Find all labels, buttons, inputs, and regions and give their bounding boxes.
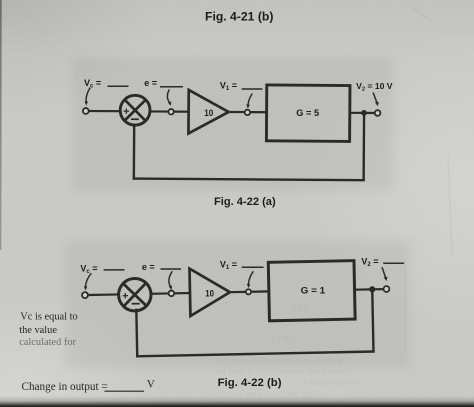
- svg-text:l ± b u: l ± b u: [272, 333, 296, 343]
- node Vc input (diagram A): [83, 108, 89, 114]
- svg-text:Vc =: Vc =: [84, 78, 101, 90]
- wire block A to output: [350, 112, 375, 114]
- node V1 (diagram B): [246, 289, 251, 294]
- wire node V1 to block B: [252, 290, 270, 293]
- feedback wire B: bottom run: [136, 351, 375, 356]
- blank line after e= (B): [161, 268, 182, 270]
- svg-text:V: V: [147, 379, 155, 391]
- arrow to node V2 (A): [373, 93, 377, 103]
- wire amplifier A to node V1: [229, 111, 245, 113]
- blank line after Vc= (A): [108, 85, 129, 87]
- scanned panel behind diagram B: [66, 241, 410, 368]
- feedback wire A: up into summing junction: [133, 125, 136, 180]
- svg-text:10: 10: [205, 288, 214, 299]
- svg-text:Vc =: Vc =: [80, 263, 97, 275]
- blank line after Vc= (B): [104, 269, 125, 271]
- arrow to node Vc (A): [86, 88, 90, 102]
- blank line after V1= (A): [242, 88, 263, 90]
- wire node V1 to block A: [251, 111, 267, 113]
- junction dot B: [369, 286, 375, 292]
- svg-text:nov have right variable me an: nov have right variable me anoth w: [216, 355, 344, 365]
- blank line after V1= (B): [242, 266, 264, 268]
- node e (diagram A): [168, 109, 173, 114]
- arrow to node V1 (A): [248, 94, 252, 106]
- block G=1 rectangle: [268, 261, 355, 321]
- bottom photo edge: [0, 396, 474, 407]
- wire input to summing junction B: [89, 293, 119, 296]
- arrow to node V2 (B): [382, 267, 386, 278]
- arrowhead V2 (A): [375, 102, 379, 106]
- svg-text:Fig. 4-22 (a): Fig. 4-22 (a): [214, 196, 276, 208]
- svg-text:Fig. 4-21 (b): Fig. 4-21 (b): [205, 9, 273, 23]
- node e (diagram B): [169, 291, 175, 297]
- arrowhead V1 (B): [247, 284, 251, 288]
- svg-text:G = 5: G = 5: [296, 108, 319, 119]
- wire node e to amplifier A: [174, 110, 189, 112]
- wire node e to amplifier B: [175, 292, 191, 295]
- svg-text:e =: e =: [142, 262, 155, 272]
- feedback wire B: down from junction: [372, 289, 373, 351]
- left photo edge: [0, 0, 2, 250]
- feedback wire A: down from junction: [362, 113, 365, 180]
- summing junction SJ-B minus sign: [132, 303, 140, 305]
- feedback wire A: bottom run: [133, 179, 365, 181]
- blank line after Change in output: [105, 390, 145, 392]
- svg-text:V2 =: V2 =: [361, 257, 378, 269]
- svg-text:d j b: d j b: [292, 302, 309, 312]
- svg-text:e =: e =: [144, 78, 157, 88]
- arrowhead e (B): [169, 286, 173, 291]
- summing junction SJ-A cross: [125, 100, 146, 121]
- svg-text:ow ere s word dini gnol: ow ere s word dini gnol: [232, 389, 318, 399]
- svg-text:V1 =: V1 =: [220, 260, 237, 272]
- svg-text:asl hodc si wvl homrrow mst tm: asl hodc si wvl homrrow mst tmeearg: [216, 366, 352, 376]
- svg-text:Vc is equal to: Vc is equal to: [20, 312, 77, 323]
- arrowhead V2 (B): [384, 277, 388, 281]
- node V2 output (diagram B): [383, 286, 389, 292]
- summing junction SJ-B plus sign: [123, 293, 129, 299]
- wire input to summing junction A: [89, 110, 119, 112]
- svg-text:Change in output =: Change in output =: [22, 381, 108, 393]
- wire amplifier B to node V1: [230, 291, 246, 294]
- wire block B to output: [355, 288, 384, 291]
- blank line after e= (A): [160, 86, 183, 88]
- blank line after V2= (B): [383, 262, 404, 264]
- summing junction SJ-A circle: [120, 95, 150, 125]
- junction dot A: [361, 110, 367, 116]
- svg-text:Fig. 4-22 (b): Fig. 4-22 (b): [218, 377, 282, 389]
- svg-text:10: 10: [204, 108, 213, 119]
- node V1 (diagram A): [245, 110, 250, 115]
- summing junction SJ-A minus sign: [131, 118, 139, 120]
- wire summing junction B to node e: [150, 292, 168, 295]
- arrow to node e (A): [167, 90, 169, 103]
- node Vc input (diagram B): [82, 292, 88, 298]
- svg-text:av knius want m: av knius want m: [300, 377, 359, 387]
- svg-text:calculated for: calculated for: [19, 337, 76, 348]
- summing junction SJ-B cross: [123, 283, 146, 306]
- svg-text:G = 1: G = 1: [301, 286, 326, 297]
- feedback wire B: up into summing junction: [135, 309, 138, 358]
- node V2 output (diagram A): [375, 110, 381, 116]
- svg-text:the value: the value: [19, 325, 57, 336]
- svg-text:V2 = 10 V: V2 = 10 V: [356, 81, 393, 92]
- block G=5 rectangle: [266, 85, 350, 141]
- summing junction SJ-A plus sign: [124, 108, 129, 113]
- summing junction SJ-B circle: [118, 278, 151, 311]
- wire summing junction A to node e: [150, 110, 168, 112]
- amplifier A1 gain 10 triangle: [188, 90, 228, 134]
- arrowhead Vc (A): [85, 101, 89, 105]
- arrow to node V1 (B): [249, 271, 254, 284]
- scanned panel behind diagram A: [72, 57, 394, 190]
- arrowhead e (A): [168, 102, 172, 106]
- arrow to node e (B): [169, 271, 172, 286]
- svg-text:V1 =: V1 =: [220, 81, 237, 93]
- arrowhead Vc (B): [84, 286, 88, 290]
- arrowhead V1 (A): [246, 104, 250, 108]
- amplifier B1 gain 10 triangle: [189, 268, 230, 316]
- arrow to node Vc (B): [86, 273, 92, 287]
